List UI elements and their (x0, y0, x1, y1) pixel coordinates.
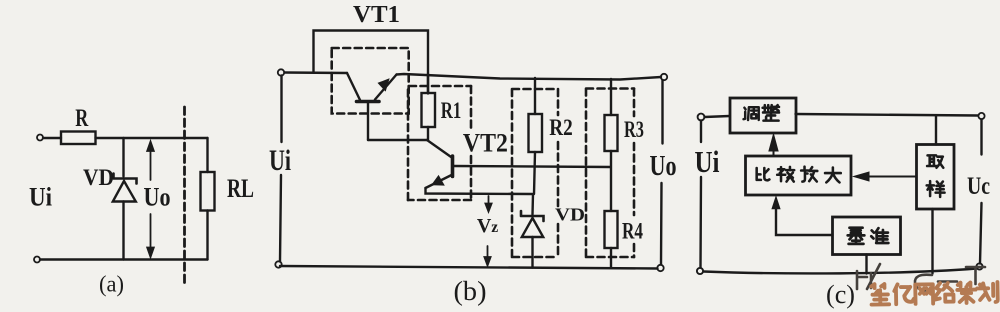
transistor VT1 emitter (375, 75, 397, 100)
svg-text:Vz: Vz (477, 215, 498, 237)
dashed box VT1 (332, 48, 409, 114)
wire dashed boundary (a) (183, 107, 186, 283)
wire sample to compare arrow (856, 173, 917, 181)
svg-text:VT1: VT1 (353, 2, 400, 28)
wire VD top lead (122, 138, 124, 177)
wire reference to compare (776, 203, 833, 235)
wire left rail upper (b) (280, 76, 282, 143)
wire right rail lower (c) (980, 203, 982, 264)
watermark char hua (977, 282, 998, 302)
wire bottom rail (b) (280, 266, 658, 269)
wire VT1 base lead (367, 103, 369, 140)
wire RL top lead (206, 138, 208, 172)
caption fragment 1 (857, 271, 867, 289)
block reference box (833, 217, 901, 255)
node bottom-right terminal (c) (976, 263, 982, 269)
wire collector loop (314, 31, 429, 94)
label ji (base) (848, 228, 865, 244)
node Vz arrow bottom (484, 246, 490, 266)
resistor R4 (605, 211, 618, 248)
svg-text:Uo: Uo (650, 150, 677, 182)
resistor RL (201, 172, 215, 211)
svg-text:R3: R3 (624, 117, 644, 142)
resistor R2 (529, 114, 543, 152)
wire top-right (a) (96, 137, 208, 139)
label zhun (standard) (871, 228, 888, 243)
node bottom terminal (a) (34, 257, 40, 263)
label jiao (compare2) (777, 167, 794, 182)
wire input top (b) (285, 71, 348, 74)
svg-text:R4: R4 (622, 219, 643, 244)
dashed box R3 R4 (586, 89, 634, 258)
wire R2 top lead (534, 78, 536, 114)
caption fragment 2 (867, 264, 880, 289)
resistor R3 (605, 115, 618, 151)
node top-right terminal (c) (978, 113, 984, 119)
wire top-left (c) (705, 116, 730, 117)
svg-text:VD: VD (555, 205, 585, 225)
svg-text:(a): (a) (99, 272, 124, 297)
wire reference bottom lead (865, 255, 867, 274)
node Vz arrow top (485, 196, 491, 212)
node top-left terminal (c) (698, 114, 705, 121)
wire top-left (a) (43, 137, 61, 139)
svg-text:R: R (75, 105, 89, 132)
dashed box R2 VD (512, 89, 558, 257)
wire R3 top lead (610, 79, 612, 115)
svg-text:Ui: Ui (695, 144, 720, 179)
block adjust box (730, 98, 796, 133)
node Uo arrow top (a) (147, 142, 154, 181)
svg-text:(c): (c) (826, 280, 855, 309)
printed caption fragments under watermark (857, 264, 985, 290)
block sample box (917, 145, 955, 210)
transistor VT2 collector (427, 140, 453, 158)
CJK block labels, hand-drawn strokes (744, 105, 945, 244)
wire RL bottom lead (206, 211, 208, 260)
wire left rail upper (c) (700, 121, 702, 143)
svg-text:Uo: Uo (144, 182, 171, 212)
transistor VT1 emitter arrow (379, 80, 389, 91)
node bottom-left terminal (c) (697, 268, 703, 274)
label fang (release) (801, 167, 817, 182)
svg-text:Ui: Ui (29, 183, 52, 212)
watermark char luo (935, 283, 954, 302)
watermark char ce (957, 282, 976, 303)
diode VD triangle (113, 181, 136, 202)
diode VD triangle (b) (522, 218, 543, 237)
svg-text:R1: R1 (441, 98, 462, 124)
caption fragment 3 (curve) (915, 275, 933, 291)
wire right rail upper (c) (980, 120, 982, 155)
label da (big) (825, 168, 841, 183)
block compare-amplify box (746, 156, 852, 195)
diode VD zener bar (b) (521, 211, 544, 221)
wire top-right (c) (796, 114, 979, 116)
wire reference arrow (772, 198, 779, 209)
transistor VT1 base bar (357, 100, 380, 104)
svg-text:VD: VD (83, 165, 114, 190)
wire VT2 base lead (454, 166, 611, 167)
transistor VT1 collector (347, 73, 360, 100)
wire right rail upper (b) (661, 80, 663, 144)
node bottom-right terminal (b) (657, 265, 663, 271)
dashed box R1 VT2 (408, 86, 471, 200)
wire R1 bottom lead (427, 127, 429, 140)
node input terminal (b) (278, 69, 284, 75)
svg-text:Uc: Uc (967, 173, 990, 200)
node bottom-left terminal (b) (275, 261, 281, 267)
wire left rail lower (c) (699, 177, 702, 268)
wire sample top lead (935, 116, 937, 145)
wire VD bottom lead (122, 202, 124, 260)
label zheng (whole) (763, 105, 779, 120)
wire R3 bottom to node B (610, 151, 612, 211)
watermark sheng-yi wang-luo ce-hua (871, 282, 998, 305)
wire VD bottom lead (b) (531, 237, 533, 268)
wire VT1 base to node A (368, 139, 427, 141)
wire sample bottom lead (931, 209, 933, 274)
resistor R (61, 132, 96, 145)
node top-right terminal (b) (661, 74, 667, 80)
label qu (sample1) (927, 155, 943, 167)
transistor VT2 base bar (451, 156, 455, 177)
svg-text:Ui: Ui (269, 144, 291, 177)
watermark char yi (894, 284, 914, 304)
wire R2 bottom lead (534, 152, 535, 194)
wire R4 bottom lead (610, 248, 612, 268)
wire VT2 emitter down (426, 188, 533, 194)
wire bottom rail (c) (704, 269, 977, 274)
watermark char sheng (871, 284, 889, 305)
label tiao (adjust) (744, 107, 759, 120)
resistor R1 (422, 93, 436, 127)
label yang (sample2) (927, 181, 945, 197)
wire left rail lower (b) (280, 175, 281, 262)
svg-text:R2: R2 (549, 115, 573, 140)
svg-text:VT2: VT2 (463, 128, 508, 157)
label bi (compare) (757, 168, 770, 180)
caption fragment 4 (dash) (938, 280, 957, 283)
svg-text:RL: RL (227, 174, 254, 203)
wire right rail lower (b) (660, 183, 663, 265)
wire VD top lead (b) (531, 194, 534, 215)
watermark char wang (915, 284, 933, 304)
wire adjust feedback arrow (770, 136, 778, 156)
caption fragment 5 (966, 267, 985, 284)
diode VD zener bar (114, 174, 137, 184)
transistor VT2 emitter arrow (433, 176, 444, 185)
transistor VT2 emitter (426, 175, 453, 189)
wire R1 top lead (427, 74, 429, 93)
svg-text:(b): (b) (454, 276, 487, 306)
wire top rail (b) (397, 74, 662, 80)
wire bottom (a) (40, 258, 208, 260)
node Uo arrow bottom (a) (147, 214, 154, 257)
node input terminal (a) (37, 135, 43, 141)
